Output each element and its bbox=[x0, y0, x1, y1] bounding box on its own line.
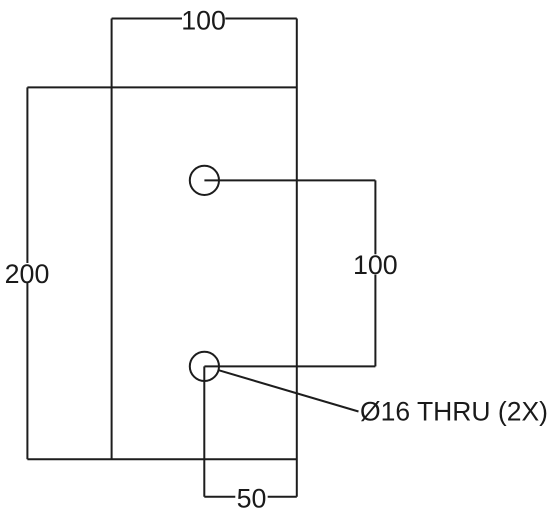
svg-text:Ø16 THRU (2X): Ø16 THRU (2X) bbox=[360, 396, 548, 426]
hole H1 top circle bbox=[190, 166, 219, 195]
hole H2 bottom circle bbox=[190, 352, 219, 381]
svg-text:200: 200 bbox=[5, 259, 50, 289]
svg-text:100: 100 bbox=[353, 250, 398, 280]
top dimension line 100 bbox=[112, 18, 297, 20]
svg-text:50: 50 bbox=[237, 484, 267, 514]
leader line to hole note bbox=[219, 370, 359, 411]
hole spacing dimension line 100 (right) bbox=[204, 180, 375, 366]
right edge / extension line bbox=[296, 19, 298, 497]
plate outline (front view rectangle) bbox=[27, 87, 296, 459]
bottom dimension line 50 bbox=[204, 366, 296, 496]
bend/feature line at left of plate bbox=[111, 19, 113, 460]
svg-text:100: 100 bbox=[181, 5, 226, 35]
